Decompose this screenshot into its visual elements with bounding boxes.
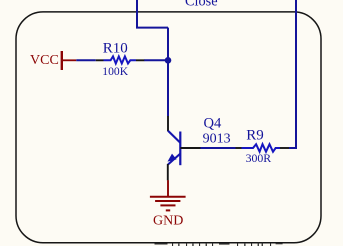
- power port VCC: [30, 51, 76, 70]
- net label Close: [185, 0, 218, 10]
- wire Close jog: [137, 0, 168, 28]
- wire R10 to junction: [144, 59, 168, 61]
- value 300R: [246, 151, 272, 165]
- resistor R10 body: [104, 56, 137, 63]
- ground bar 2: [155, 200, 180, 202]
- resistor R9 pin 1: [236, 147, 242, 149]
- transistor Q4 emitter line: [168, 154, 180, 165]
- transistor Q4 collector line: [168, 131, 180, 143]
- wire VCC to R10: [76, 59, 96, 61]
- resistor R9 body: [242, 144, 281, 152]
- svg-text:Q4: Q4: [204, 116, 223, 132]
- transistor Q4 emitter arrow: [168, 154, 177, 162]
- svg-text:GND: GND: [153, 213, 183, 228]
- designator R9: [246, 127, 264, 143]
- resistor R9 pin 2: [280, 147, 289, 149]
- resistor R10 pin 1: [96, 59, 104, 61]
- transistor Q4 collector pin: [167, 116, 169, 131]
- svg-text:300R: 300R: [246, 151, 272, 165]
- ground bar 3: [160, 204, 175, 206]
- designator Q4: [204, 116, 223, 132]
- transistor Q4 base bar: [179, 132, 181, 166]
- svg-text:R10: R10: [103, 40, 128, 56]
- svg-text:VCC: VCC: [30, 53, 59, 68]
- designator R10: [103, 40, 128, 56]
- wire vertical to collector: [167, 28, 169, 117]
- junction dot: [165, 57, 172, 64]
- resistor R10 pin 2: [136, 59, 144, 61]
- clipped caption below border: [155, 242, 283, 246]
- power port GND stem: [167, 180, 169, 197]
- transistor Q4 base pin: [180, 147, 200, 149]
- ground bar 1: [150, 196, 186, 198]
- wire R9 to right riser: [289, 0, 296, 148]
- svg-text:100K: 100K: [102, 65, 128, 78]
- wire base to R9: [201, 147, 236, 149]
- value 100K: [102, 65, 128, 78]
- ground bar 4: [166, 209, 170, 211]
- label GND: [153, 213, 183, 228]
- value 9013: [203, 131, 231, 146]
- transistor Q4 emitter pin: [167, 164, 169, 180]
- svg-text:R9: R9: [246, 127, 264, 143]
- svg-text:9013: 9013: [203, 131, 231, 146]
- svg-text:Close: Close: [185, 0, 218, 10]
